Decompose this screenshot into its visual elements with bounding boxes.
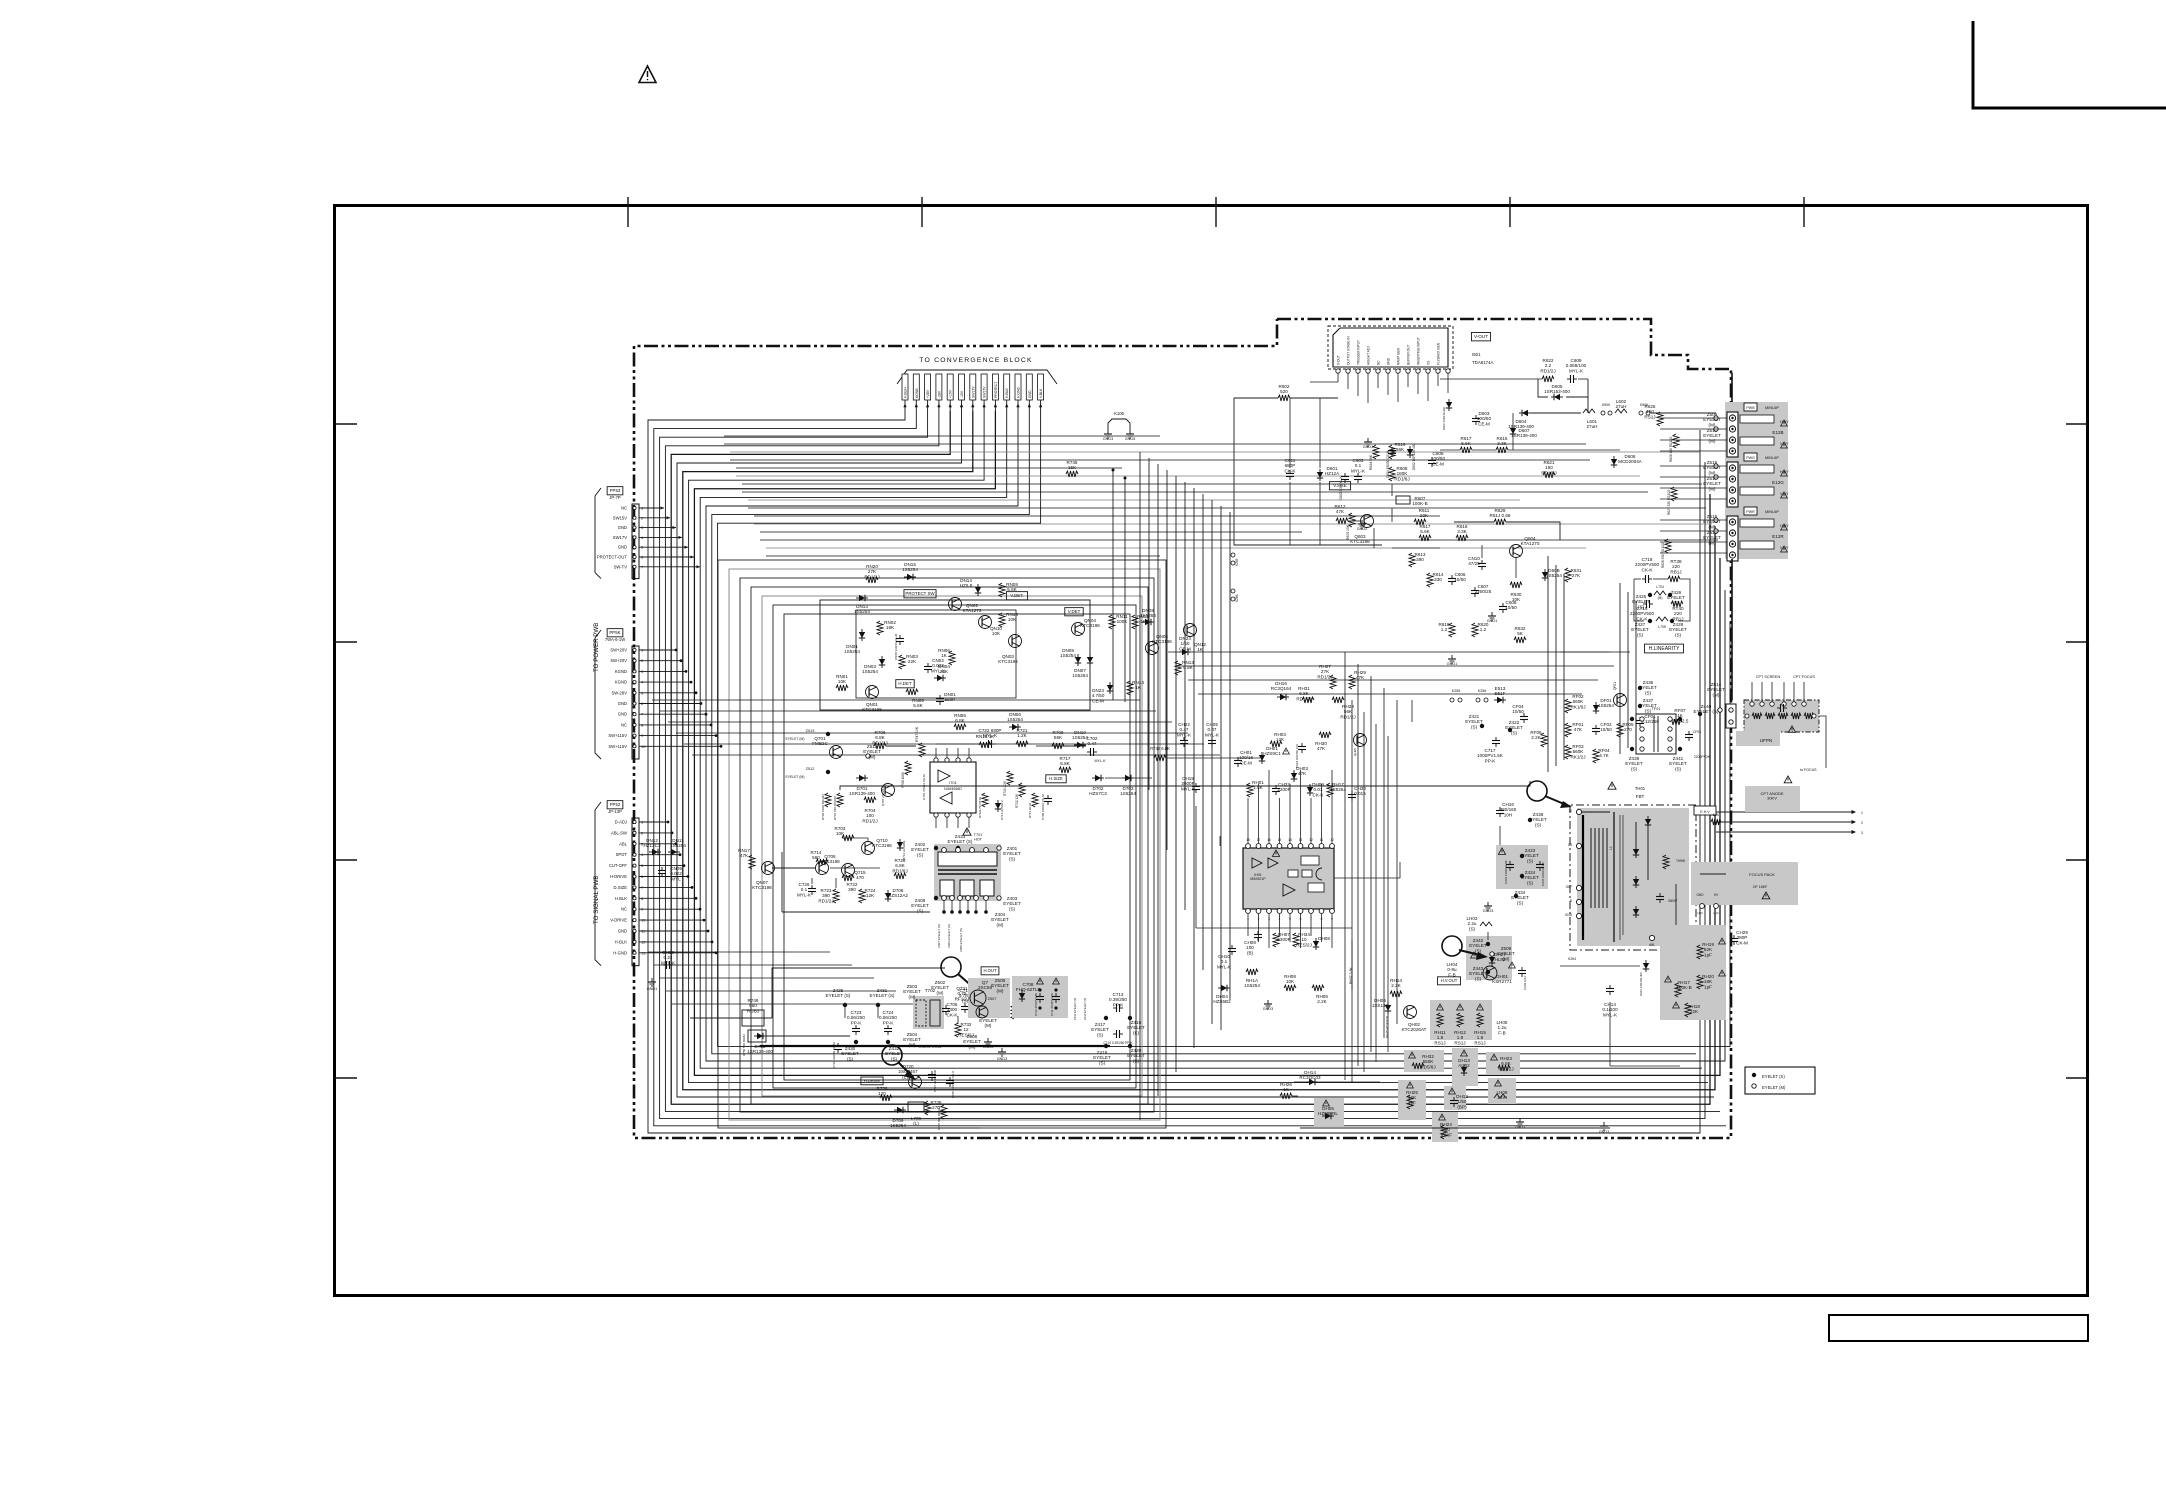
svg-text:MYL-K: MYL-K [1095,759,1107,763]
resistor R712 [1019,783,1025,797]
svg-text:1.2: 1.2 [1480,627,1487,632]
svg-text:(S): (S) [1511,730,1518,735]
callout circle V-DRIVE [882,1045,902,1065]
svg-text:CE-M: CE-M [1240,760,1252,765]
IC I701 top pin 8 [934,758,938,762]
svg-text:(L): (L) [913,1121,919,1126]
capacitor C604 [1391,447,1393,451]
diode DN07 [1089,654,1091,666]
ground GND1 vout bottom [1451,655,1453,659]
wire cr vertical 1 [1344,652,1346,1080]
svg-text:6.2K: 6.2K [1713,813,1720,817]
svg-text:KGND: KGND [615,669,627,674]
capacitor CH18b [663,964,667,966]
svg-text:R624 56K: R624 56K [1369,454,1373,470]
svg-text:SW+20V: SW+20V [610,648,627,653]
svg-text:RAMP GEN: RAMP GEN [1397,347,1401,365]
svg-text:3.3K: 3.3K [1497,441,1507,446]
connector CRT socket gray [1744,700,1819,732]
svg-text:RGBJ: RGBJ [747,1008,759,1013]
svg-text:(B): (B) [1247,950,1254,955]
svg-text:PP5K: PP5K [609,630,620,635]
IC IH01 bottom pin 9 [1330,909,1335,914]
op-amp IC T501 TDA8174A outline [1328,326,1453,369]
svg-text:RD1/2J: RD1/2J [1296,696,1311,701]
svg-text:1SR153-400: 1SR153-400 [1544,389,1570,394]
svg-text:1pF: 1pF [1704,952,1712,957]
FBT pin G3 [1576,843,1581,848]
capacitor D603 [1475,415,1477,419]
wire central loop 6 [773,605,1136,1088]
resistor R721 [1016,741,1028,747]
svg-text:RD5/8J: RD5/8J [1420,1064,1435,1069]
capacitor CN08 [899,635,901,639]
page border frame [335,206,2088,1296]
svg-text:R701 56K RD1/8J: R701 56K RD1/8J [833,795,837,820]
warning triangle E12G H [1781,470,1788,476]
wire vertical bus B6 [1635,601,1637,742]
label PROTECT SW [904,590,936,598]
jumper K505 [1601,411,1605,415]
svg-text:RD1/8J: RD1/8J [1541,470,1556,475]
svg-text:(M): (M) [869,754,876,759]
diode DH08 [1315,938,1317,950]
IC I701 top pin 7 [945,758,949,762]
svg-text:PWG: PWG [1746,456,1755,460]
resistor RN05 [906,689,918,695]
IC T501 pin 10 [1426,369,1430,373]
svg-text:ABL-SW: ABL-SW [611,830,627,835]
svg-text:10/50: 10/50 [1505,605,1517,610]
svg-text:D714 HZS6C3: D714 HZS6C3 [1000,800,1004,820]
capacitor C705 [1047,795,1049,799]
wire hv mesh [1499,826,1501,845]
svg-text:V.BLK: V.BLK [1039,388,1043,398]
svg-text:FMB2C: FMB2C [812,741,828,746]
frame tick top 3 [1215,197,1217,227]
wire EHV arrows [1716,811,1852,813]
resistor R630 [1510,582,1522,588]
gray cluster Z423 [1496,845,1548,889]
resistor RH26 [1280,1093,1292,1099]
svg-text:-15V: -15V [960,390,964,398]
svg-text:Q707 2SC2810: Q707 2SC2810 [881,785,885,806]
wire cr vertical 3 [1370,676,1372,1052]
capacitor C609 [1567,378,1571,380]
transistor Q704 [976,1006,988,1018]
capacitor C710 [1039,993,1041,997]
warning triangle note [639,66,656,83]
resistor RF05 [1617,723,1623,737]
T701 pins bottom [942,896,947,901]
eyelet Z421 [1480,724,1484,728]
wire convergence bus ring 11 [706,411,1725,1061]
svg-text:10/50: 10/50 [1512,709,1524,714]
diode D604 [1519,412,1531,414]
T701 pins top [942,848,947,853]
resistor RH06 [1312,985,1324,991]
svg-text:L704: L704 [1656,585,1664,589]
svg-text:KTC3198: KTC3198 [1080,623,1100,628]
svg-text:Z507: Z507 [988,997,997,1001]
svg-text:PP-K: PP-K [883,1020,895,1025]
svg-text:GND3: GND3 [997,1057,1008,1061]
transistor QN12 [1184,624,1197,637]
label EHV box [1694,806,1716,815]
wire vertical bus A8 [1202,494,1204,970]
label PWR box [1744,507,1757,515]
resistor R711 [1032,793,1038,807]
transistor QN07 KTC3198 [762,862,775,875]
wire mid row 2 [660,710,1156,712]
jumper K256 [1476,698,1480,702]
capacitor CH08 [1257,931,1259,935]
eyelet Z401 [997,846,1001,850]
svg-text:TH01: TH01 [1635,786,1646,791]
svg-text:(S): (S) [1517,900,1524,905]
wire low row 3 [660,977,874,979]
resistor R701 [837,793,843,807]
resistor R737 [941,1105,947,1119]
svg-text:(S): (S) [1675,632,1682,637]
eyelet Z425b [1648,593,1652,597]
resistor RH29 [1349,675,1355,689]
ground GND3 hv [1487,902,1489,906]
capacitor C706 [945,1005,947,1009]
ground GND3 rail [1001,1048,1003,1052]
svg-text:1K: 1K [941,653,948,658]
svg-text:47K: 47K [1317,746,1326,751]
coil L704 [1654,591,1666,595]
capacitor C718 [1642,578,1646,580]
capacitor C608 [1502,603,1504,607]
svg-text:E.H.V: E.H.V [1700,810,1710,814]
wire bus horizontal 3 [730,451,1700,453]
resistor K284 line [1560,965,1640,967]
diode DF01 [1595,702,1597,714]
svg-text:DH10 1SR139-400: DH10 1SR139-400 [1639,972,1643,996]
svg-text:GND3: GND3 [1483,909,1494,913]
svg-text:390: 390 [1416,557,1424,562]
resistor R617 [1419,535,1431,541]
svg-text:1S5254: 1S5254 [844,649,860,654]
frame tick top 5 [1803,197,1805,227]
svg-text:R747 10K: R747 10K [915,726,919,742]
ground GND1 signal [651,978,653,982]
svg-text:TDA8174A: TDA8174A [1472,360,1494,365]
FBT pin ABL [1649,935,1654,940]
eyelet Z427 [1648,619,1652,623]
svg-text:47K: 47K [1298,771,1307,776]
frame tick right 4 [2066,1077,2089,1079]
resistor RH08 [1284,985,1296,991]
svg-text:2200PV2K: 2200PV2K [1694,755,1711,759]
svg-text:CPT FOCUS: CPT FOCUS [1793,675,1815,679]
wire central loop 2 [729,569,1160,1120]
svg-text:Z414 EYELET (S): Z414 EYELET (S) [1083,998,1087,1020]
CRT socket pin stubs [1751,682,1753,702]
wire vout mesh 1 [1234,398,1382,545]
svg-text:EYELET (S): EYELET (S) [1762,1074,1785,1079]
wire vertical bus A6 [1184,482,1186,910]
svg-text:(S): (S) [1637,632,1644,637]
svg-text:MYL-K: MYL-K [1603,1012,1618,1017]
resistor R708 [905,761,911,775]
capacitor C711 [1055,993,1057,997]
ground GND3 hout [987,1038,989,1042]
svg-text:PWB: PWB [1746,406,1755,410]
svg-text:R605 15K: R605 15K [1346,524,1350,540]
IC IH01 bottom pin 5 [1288,909,1293,914]
svg-text:(M): (M) [985,1023,992,1028]
svg-text:GND: GND [1028,390,1032,398]
wire low row 4 [666,990,896,992]
svg-text:15K: 15K [1068,465,1077,470]
wire central loop 3 [740,578,1154,1112]
wire d604 net [1587,397,1589,413]
svg-text:18K: 18K [886,625,895,630]
FBT internal wires [1635,822,1637,846]
svg-text:CK-K: CK-K [1313,792,1325,797]
svg-text:CPT SCREEN: CPT SCREEN [1756,675,1781,679]
svg-text:(E)(T): (E)(T) [902,1074,914,1079]
svg-text:SW17V: SW17V [983,386,987,398]
resistor RH25 gray [1398,1080,1426,1120]
convergence pin label H.BLK [1004,374,1010,400]
frame tick right 3 [2066,859,2089,861]
svg-text:V.DET.: V.DET. [1010,593,1023,598]
eyelet Z425 [843,1003,847,1007]
diode DN12 [649,851,661,853]
svg-text:V-DRIVE: V-DRIVE [610,918,627,923]
capacitor C728 [949,1077,951,1081]
svg-text:NC: NC [621,907,627,912]
svg-text:R627 330 RD1/2J: R627 330 RD1/2J [1667,489,1671,515]
wire fbt bottom [1609,1002,1611,1066]
legend eyelet S sample [1752,1073,1756,1077]
wire bus horizontal 2 [724,443,1586,445]
label H.DRIVE box [861,1077,883,1085]
svg-text:I701: I701 [949,780,958,785]
transformer TF01 [1636,714,1676,754]
resistor R709 [1052,743,1064,749]
convergence pin label -28V [936,374,942,400]
eyelet Z443 [1486,970,1490,974]
wire convergence bus ring 2 [654,411,1726,1126]
svg-text:GND3: GND3 [1599,1130,1610,1134]
transistor Q706 KTC3198 [816,862,829,875]
svg-text:47/25: 47/25 [1468,561,1480,566]
eyelet Z438 tf [1630,717,1634,721]
svg-text:CE-M: CE-M [1179,646,1191,651]
resistor RH12 [1457,1013,1463,1027]
svg-text:27uH: 27uH [1616,404,1627,409]
wire T501 pin drops [1337,373,1339,382]
diode DN10 [1074,744,1086,746]
wire vertical bus B1 [1547,556,1549,772]
svg-text:UFPN: UFPN [1760,738,1773,743]
svg-text:GND: GND [1565,913,1573,917]
transistor Q701 FMB2C [830,746,843,759]
svg-text:RS1J: RS1J [1454,1040,1465,1045]
svg-text:(M): (M) [1503,956,1510,961]
svg-text:KTC3198: KTC3198 [752,885,772,890]
eyelet Z440 [1698,712,1702,716]
resistor R742 [1154,755,1166,761]
svg-text:PP-K: PP-K [1113,1002,1125,1007]
svg-text:1S5254: 1S5254 [862,669,878,674]
svg-text:GND: GND [618,545,627,550]
diode D605x [1544,569,1546,581]
svg-text:SW15V: SW15V [613,515,627,520]
eyelet Z509 [1490,952,1494,956]
svg-text:3.3K: 3.3K [1457,529,1467,534]
svg-text:CE-M: CE-M [1092,698,1104,703]
resistor R624 [1373,445,1379,459]
svg-text:GND3: GND3 [1263,1007,1274,1011]
resistor RN12 [1132,615,1138,629]
diode DH27 [1491,954,1493,966]
svg-text:SW+20V: SW+20V [610,658,627,663]
resistor RF03 [1565,745,1571,759]
capacitor CN09 [661,867,663,871]
capacitor CH18 [1301,743,1303,747]
diode DH08b [1446,1015,1458,1017]
warning triangle FBT [1608,782,1616,789]
wire conv drop vertical 1 [1112,470,1114,700]
wire vertical bus A11 [1229,512,1231,1000]
IC I701 top pin 5 [967,758,971,762]
capacitor CF01 [1639,717,1641,721]
callout circle HV out [1442,936,1462,956]
wire bus horizontal 15 [766,547,1586,549]
capacitor CH29 [1733,935,1735,939]
svg-text:E12B: E12B [1772,430,1783,435]
resistor RF06 [1541,733,1547,747]
svg-text:EYELET (S): EYELET (S) [1694,709,1719,714]
svg-text:1SR139-400: 1SR139-400 [849,791,875,796]
diode DH14 [1306,1081,1318,1083]
warning triangle DH01 [1283,748,1290,754]
IC IH01 top pin 12 [1309,844,1314,849]
convergence connector bracket [897,370,1057,384]
diode DH13 gray [1452,1048,1478,1086]
wire hlin feeds [1560,651,1610,653]
svg-text:D602 1SR139-400: D602 1SR139-400 [1412,443,1416,470]
FBT pin 10 [1576,809,1581,814]
diode DH05 gray [1314,1098,1344,1126]
svg-text:RC3Q164: RC3Q164 [1271,686,1292,691]
svg-text:L705: L705 [1658,625,1666,629]
resistor R602 [1278,395,1290,401]
frame tick left 2 [334,641,357,643]
diode D713 [899,839,901,851]
wire cr vertical 2 [1357,664,1359,1066]
pin box H-DY E12R [1740,519,1774,527]
focus pack gray box [1691,862,1798,905]
svg-text:HZ09FRL: HZ09FRL [1318,1111,1338,1116]
svg-text:RD1/2J: RD1/2J [1540,368,1555,373]
svg-text:30KV: 30KV [1767,796,1777,801]
warning triangle RH20 [1719,970,1726,976]
svg-text:Z405 EYELET (S): Z405 EYELET (S) [959,928,963,952]
wire t701 left mesh [772,867,815,869]
svg-text:H.GND: H.GND [1017,387,1021,398]
svg-text:PP52: PP52 [610,802,621,807]
diode D706 [887,890,889,902]
coil L602 [1615,409,1627,413]
wire convergence bus ring 9 [694,411,1720,1075]
convergence pin label +15V [947,374,953,400]
svg-text:CH18 360/160 10H: CH18 360/160 10H [1295,744,1299,768]
op-amp IC I701 NJM4556D [930,762,976,813]
resistor RH17 [1675,983,1681,997]
resistor RN20 [866,577,878,583]
wire central loop 1 [718,560,1166,1128]
svg-text:22K: 22K [1690,1009,1699,1014]
svg-text:R737 820 RD1/2J: R737 820 RD1/2J [937,1106,941,1130]
transistor QN02 KTA1272 [949,598,962,611]
svg-text:MYL-K: MYL-K [1569,368,1584,373]
ground GND3 right bottom [1603,1122,1605,1126]
svg-text:22K: 22K [1420,513,1429,518]
svg-text:(S): (S) [1099,1060,1106,1065]
svg-text:MYL-K: MYL-K [983,733,998,738]
convergence pin label SW17V [981,374,987,400]
coil L705 [1656,617,1668,621]
resistor cluster RH19 gray [1660,925,1726,1020]
diode DH11 [1709,940,1711,952]
svg-text:E12G: E12G [1772,480,1784,485]
warning triangles hout caps [1037,978,1044,984]
svg-text:RK1/2J: RK1/2J [1570,754,1585,759]
IC T501 pin 1 [1336,369,1340,373]
IC IH01 bottom pin 8 [1319,909,1324,914]
transistor QH02 [1404,1006,1417,1019]
wire to panel h-dy [1651,412,1716,414]
svg-text:SW17V: SW17V [613,535,627,540]
svg-text:2: 2 [1861,821,1863,825]
eyelet Z437 [1638,704,1642,708]
IC IH01 bottom pin 6 [1298,909,1303,914]
svg-text:SPOT: SPOT [616,852,628,857]
resistor R622 [1542,376,1554,382]
resistor R605 [1349,513,1355,527]
svg-text:(M): (M) [937,990,944,995]
svg-text:RES/2J: RES/2J [1296,942,1312,947]
capacitor CH10 [1231,945,1233,949]
transformer T701 body [934,844,1001,901]
svg-text:HZS7C3: HZS7C3 [1089,791,1107,796]
svg-text:1K: 1K [1135,685,1142,690]
svg-text:RD1/2J: RD1/2J [864,574,879,579]
svg-text:C710 4700PV1.5K: C710 4700PV1.5K [1034,993,1038,1016]
wire mid row 1 [652,699,1140,701]
svg-text:to FOCUS: to FOCUS [1800,768,1817,772]
svg-text:47K: 47K [1574,727,1583,732]
diode DN03 [881,656,883,668]
svg-text:CE-M: CE-M [1432,461,1444,466]
wire convergence bus ring 13 [718,411,1730,1047]
svg-text:TH9W: TH9W [1676,859,1685,863]
coil L709 [908,1102,924,1112]
label V.SIZE [1329,482,1350,490]
protect block outline [820,600,1090,710]
diode DN11 [668,851,680,853]
diode DN04 [934,677,946,679]
wire left connector stubs PP5K [639,649,676,651]
wire bus horizontal 11 [754,515,1440,517]
